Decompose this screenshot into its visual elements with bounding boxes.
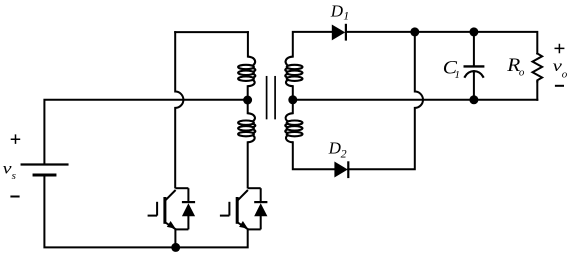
svg-text:o: o xyxy=(562,69,568,81)
svg-text:2: 2 xyxy=(341,146,347,160)
svg-text:D: D xyxy=(328,138,342,157)
svg-text:o: o xyxy=(519,67,525,79)
svg-text:D: D xyxy=(330,1,344,20)
svg-text:s: s xyxy=(12,170,16,182)
svg-text:1: 1 xyxy=(343,9,349,23)
svg-text:1: 1 xyxy=(455,69,461,81)
